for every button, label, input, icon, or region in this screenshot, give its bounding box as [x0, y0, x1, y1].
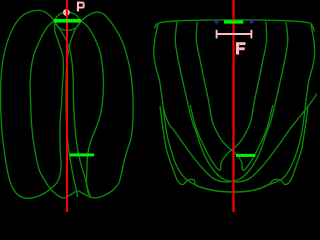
bright bar left figure lower [70, 153, 95, 156]
outer electron path (left to right) [154, 24, 308, 192]
field line crossing axis from left coil end [56, 23, 91, 197]
point P marker [64, 10, 70, 16]
optical axis left figure [66, 0, 68, 212]
middle electron path (left to right) [175, 22, 318, 182]
label F [236, 42, 246, 54]
middle electron path (right to left) [164, 22, 288, 182]
field line arc over coil (left figure) [54, 12, 81, 21]
blue aperture mark left [215, 21, 219, 24]
outer left field-line loop [0, 10, 63, 198]
middle field line weaving through both lobes [30, 12, 133, 198]
focal length bracket [217, 30, 252, 39]
inner electron path (right to left) [190, 22, 267, 171]
top arc of electron beam figure [155, 20, 315, 32]
focal plane bar right figure [236, 154, 255, 157]
blue aperture mark right [250, 21, 254, 24]
optical axis right figure [232, 0, 234, 212]
outer electron path (right to left) [160, 24, 315, 192]
middle right field line [81, 21, 103, 196]
field line crossing axis from right coil end [66, 23, 80, 197]
field line arc under coil (left figure) [54, 21, 81, 30]
coil bar left figure top [54, 19, 81, 23]
lens bar right figure top [224, 20, 243, 23]
label P [77, 2, 85, 12]
inner electron path (left to right) [196, 22, 273, 171]
